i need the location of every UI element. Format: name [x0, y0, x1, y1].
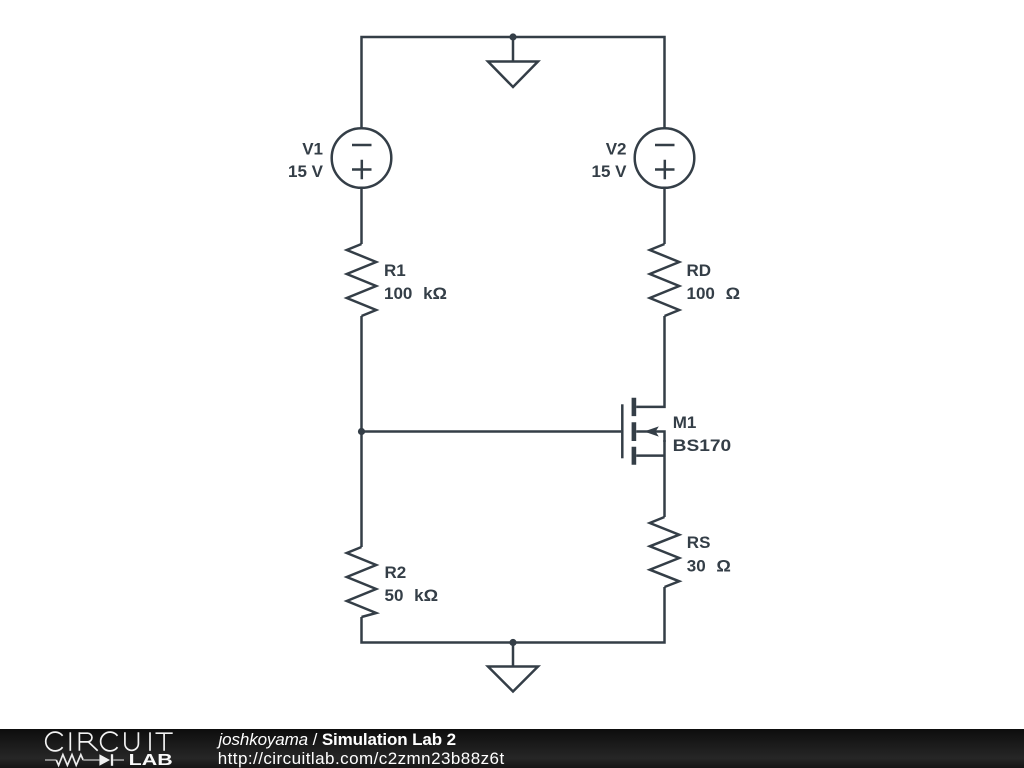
label V1 value [288, 140, 324, 182]
label RD value [687, 261, 741, 303]
wire bottom rail [362, 587, 665, 643]
svg-text:30 Ω: 30 Ω [687, 557, 731, 576]
svg-text:100 Ω: 100 Ω [687, 284, 741, 303]
resistor R2 [347, 547, 376, 617]
wire M1 source to RS [663, 440, 666, 517]
svg-text:V1: V1 [302, 140, 323, 159]
node gate junction [358, 428, 365, 435]
wire gate [362, 430, 622, 433]
svg-text:15 V: 15 V [592, 162, 628, 181]
ground GND top [488, 62, 538, 88]
wire V2 to RD [663, 188, 666, 244]
node top junction [509, 33, 516, 40]
svg-text:100 kΩ: 100 kΩ [384, 284, 447, 303]
svg-text:50 kΩ: 50 kΩ [385, 586, 439, 605]
svg-text:R1: R1 [384, 261, 406, 280]
svg-text:RS: RS [687, 533, 711, 552]
wire V1 to R1 [360, 188, 363, 244]
ground GND bottom [488, 667, 538, 692]
resistor RD [650, 244, 679, 316]
CircuitLab logo resistor-diode glyph [45, 754, 124, 766]
svg-text:RD: RD [687, 261, 712, 280]
svg-text:http://circuitlab.com/c2zmn23b: http://circuitlab.com/c2zmn23b88z6t [218, 749, 505, 768]
label V2 value [592, 140, 628, 182]
svg-text:15 V: 15 V [288, 162, 324, 181]
voltage source V1 [332, 128, 392, 188]
label R1 value [384, 261, 447, 303]
voltage source V2 [635, 128, 695, 188]
node bottom junction [509, 639, 516, 646]
wire ground stub top [512, 37, 515, 62]
label M1 value [673, 413, 732, 455]
transistor M1 (NMOS BS170) [622, 398, 664, 465]
wire top rail V1 to V2 [362, 37, 665, 129]
wire R1 to R2 (left mid column) [360, 316, 363, 547]
wire RD to M1 drain [636, 316, 664, 407]
label R2 value [385, 563, 439, 605]
svg-text:M1: M1 [673, 413, 697, 432]
svg-text:LAB: LAB [129, 752, 173, 768]
wire ground stub bottom [512, 643, 515, 667]
svg-text:BS170: BS170 [673, 436, 732, 455]
CircuitLab logo wordmark CIRCUIT [46, 732, 173, 751]
resistor RS [650, 517, 679, 587]
label RS value [687, 533, 731, 576]
svg-text:R2: R2 [385, 563, 407, 582]
svg-text:V2: V2 [606, 140, 627, 159]
resistor R1 [347, 244, 376, 316]
svg-text:joshkoyama / Simulation Lab 2: joshkoyama / Simulation Lab 2 [217, 730, 456, 749]
